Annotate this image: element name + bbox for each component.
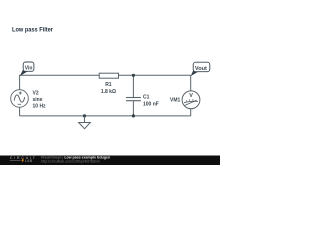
voltage source V2 labels: [33, 90, 47, 109]
node junction dot C1 bottom: [132, 114, 135, 117]
svg-text:1.8 kΩ: 1.8 kΩ: [101, 89, 116, 95]
ground: [79, 116, 91, 129]
voltage source V2: [11, 90, 29, 108]
svg-text:Low pass Filter: Low pass Filter: [12, 27, 53, 34]
flag Vin: [20, 62, 34, 76]
svg-text:C1: C1: [143, 95, 150, 101]
capacitor C1 labels: [143, 95, 159, 108]
resistor R1: [99, 73, 118, 78]
svg-text:V: V: [189, 93, 193, 99]
footer logo CIRCUITLAB: [10, 156, 37, 163]
svg-text:Vin: Vin: [25, 65, 33, 71]
node junction dot C1 top: [132, 74, 135, 77]
node junction dot ground: [83, 114, 86, 117]
capacitor C1: [126, 98, 141, 101]
svg-text:VM1: VM1: [170, 98, 181, 104]
footer bar: [0, 156, 220, 166]
flag Vout: [191, 62, 210, 76]
wire VM1 bottom: [190, 109, 192, 116]
wire left vertical below V2: [19, 107, 21, 116]
wire top rail right segment: [119, 74, 191, 76]
wire C1 branch bottom: [132, 101, 134, 116]
svg-text:Vout: Vout: [195, 66, 207, 72]
resistor R1 labels: [101, 82, 116, 95]
svg-text:100 nF: 100 nF: [143, 101, 159, 107]
wire top rail left segment: [20, 75, 100, 89]
svg-text:LAB: LAB: [25, 159, 33, 163]
svg-text:V2: V2: [33, 90, 39, 96]
svg-text:R1: R1: [105, 82, 112, 88]
voltmeter VM1: [182, 91, 200, 109]
wire C1 branch top: [132, 75, 134, 97]
svg-text:http://circuitlab.com/c/9trq34: http://circuitlab.com/c/9trq34bt78dnm: [41, 160, 100, 164]
svg-text:10 Hz: 10 Hz: [33, 104, 47, 110]
svg-text:sine: sine: [33, 97, 43, 103]
wire VM1 top: [190, 75, 192, 91]
wire bottom rail: [20, 115, 191, 117]
